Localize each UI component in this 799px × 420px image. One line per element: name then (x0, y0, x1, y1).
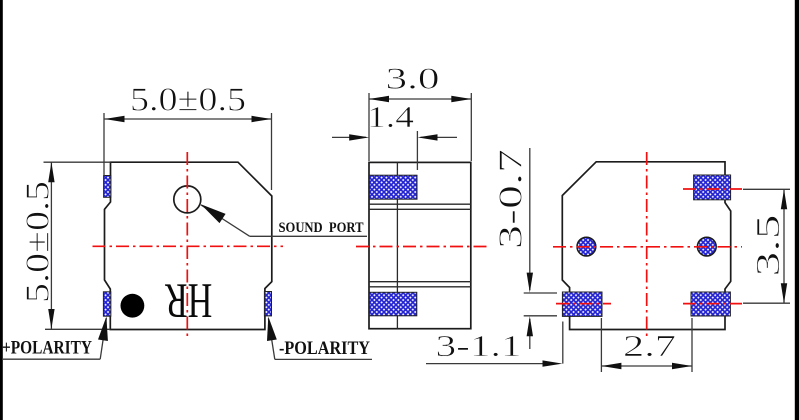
svg-text:-POLARITY: -POLARITY (279, 338, 370, 359)
svg-text:3-0.7: 3-0.7 (493, 149, 530, 249)
svg-text:SOUND PORT: SOUND PORT (279, 220, 364, 236)
svg-text:3.0: 3.0 (386, 61, 440, 96)
svg-text:1.4: 1.4 (367, 99, 415, 134)
svg-text:3-1.1: 3-1.1 (436, 328, 522, 363)
svg-text:3.5: 3.5 (750, 215, 787, 277)
svg-text:2.7: 2.7 (623, 328, 676, 363)
svg-text:HR: HR (165, 273, 213, 328)
svg-text:5.0±0.5: 5.0±0.5 (130, 82, 246, 119)
svg-text:+POLARITY: +POLARITY (2, 338, 92, 359)
svg-text:5.0±0.5: 5.0±0.5 (20, 181, 57, 303)
